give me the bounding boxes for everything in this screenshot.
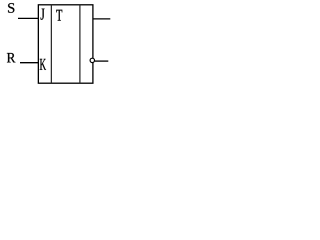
wire Q-bar output (95, 60, 109, 62)
wire S input (18, 17, 38, 19)
flip-flop U1 inner divider left (50, 5, 52, 83)
pin label T (56, 10, 62, 21)
flip-flop U1 body (38, 5, 93, 83)
node S label (8, 3, 14, 13)
pin label K (40, 59, 46, 70)
wire Q output (93, 18, 110, 20)
pin label J (41, 9, 45, 20)
wire R input (20, 62, 38, 64)
inversion bubble on Q-bar output (90, 58, 94, 62)
node R label (7, 53, 16, 62)
flip-flop U1 inner divider right (79, 5, 81, 83)
